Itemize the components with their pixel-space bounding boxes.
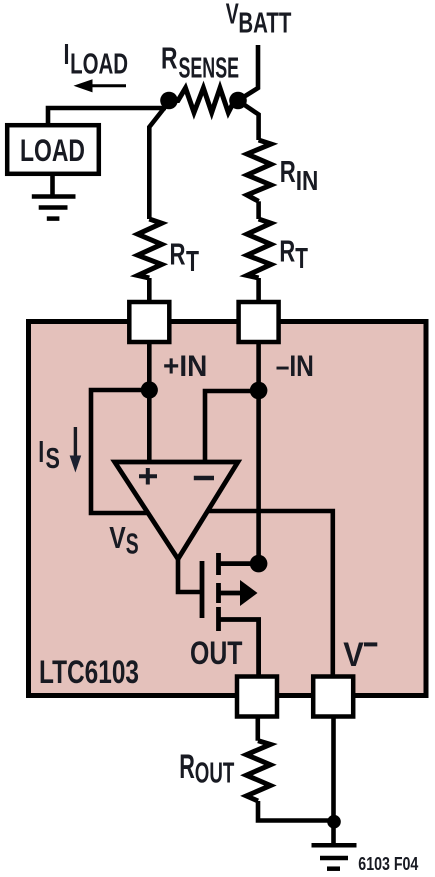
svg-text:LOAD: LOAD xyxy=(70,48,128,80)
svg-text:+IN: +IN xyxy=(163,350,207,383)
svg-text:R: R xyxy=(170,237,186,272)
svg-text:T: T xyxy=(295,243,308,275)
svg-text:V: V xyxy=(109,520,126,555)
svg-text:LTC6103: LTC6103 xyxy=(39,654,139,690)
svg-text:I: I xyxy=(38,434,44,469)
svg-text:BATT: BATT xyxy=(238,7,291,39)
svg-text:SENSE: SENSE xyxy=(179,52,240,84)
svg-text:I: I xyxy=(64,39,70,71)
svg-text:–IN: –IN xyxy=(276,350,314,383)
svg-text:R: R xyxy=(161,41,178,76)
svg-text:V: V xyxy=(343,636,364,674)
svg-text:R: R xyxy=(280,154,296,189)
svg-text:IN: IN xyxy=(296,165,319,196)
svg-text:S: S xyxy=(46,443,60,475)
svg-text:OUT: OUT xyxy=(195,758,235,790)
svg-text:OUT: OUT xyxy=(190,635,243,671)
svg-text:R: R xyxy=(179,748,195,786)
svg-text:S: S xyxy=(126,529,139,561)
svg-text:T: T xyxy=(186,246,199,278)
svg-text:V: V xyxy=(226,0,239,31)
svg-text:6103 F04: 6103 F04 xyxy=(358,854,418,874)
svg-text:LOAD: LOAD xyxy=(20,132,85,168)
svg-text:R: R xyxy=(279,234,295,269)
